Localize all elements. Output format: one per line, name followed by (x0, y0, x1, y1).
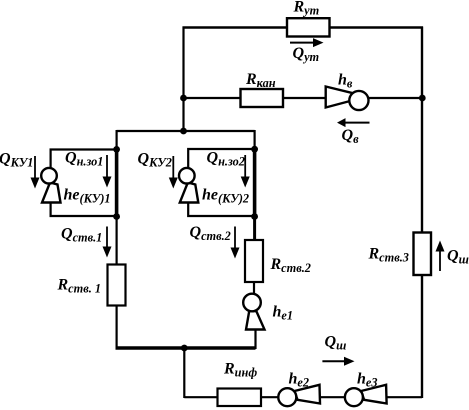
junction dot (183.5,131) (180, 128, 187, 135)
fan h_e3 circle (345, 388, 363, 406)
arrow Q_sh right (bottom) (322, 360, 346, 362)
arrow Q_nzo1 down (106, 155, 108, 178)
wire he1 base down to thick bus (254, 329, 256, 349)
svg-text:Rут: Rут (293, 0, 320, 18)
svg-text:hв: hв (338, 72, 353, 91)
KU box 1 thick right edge (115, 149, 119, 218)
wire box1 down to R_stv1 (115, 216, 117, 266)
svg-text:Rств.2: Rств.2 (270, 256, 311, 275)
junction dot right vertical y=98 (419, 95, 426, 102)
fan h_e1 cone (246, 310, 265, 330)
wire left stub vertical x=183.5 (182, 27, 184, 132)
resistor R_stv1 (108, 265, 126, 306)
svg-text:Qств.1: Qств.1 (61, 226, 102, 245)
fan h_v cone (326, 87, 352, 108)
svg-text:QКУ2: QКУ2 (138, 151, 172, 170)
resistor R_stv3 (414, 233, 432, 276)
fan h_v circle (349, 91, 368, 110)
fan he_KU2 circle (179, 168, 195, 184)
junction dot bus y=348 (181, 345, 188, 352)
svg-text:Qут: Qут (293, 45, 320, 64)
thick bus wire y=348 (116, 346, 256, 350)
junction dot box1 top-right (113, 146, 120, 153)
svg-text:Qш: Qш (447, 248, 469, 267)
svg-text:QКУ1: QКУ1 (0, 151, 33, 170)
fan he_KU1 cone (42, 183, 61, 203)
wire R_stv1 down to thick bus (115, 304, 117, 349)
wire right vertical (421, 27, 423, 399)
wire top horizontal (183, 26, 424, 28)
arrow Q_stv1 down (106, 227, 108, 249)
fan he_KU1 circle (41, 168, 57, 184)
svg-text:Qн.зо1: Qн.зо1 (65, 150, 103, 169)
fan h_e2 cone (295, 385, 321, 404)
fan he_KU2 cone (180, 183, 199, 203)
junction dot (183.5,98) (180, 95, 187, 102)
arrow Q_stv2 down (234, 227, 236, 250)
arrow Q_nzo2 down (244, 155, 246, 178)
svg-text:hе2: hе2 (289, 371, 310, 390)
svg-text:he(КУ)2: he(КУ)2 (202, 187, 249, 206)
fan h_e3 cone (361, 385, 387, 404)
resistor R_inf (218, 389, 262, 407)
junction dot box2 bottom-right (251, 213, 258, 220)
KU box 1 outline (51, 150, 117, 217)
wire bottom horizontal y=397 (184, 396, 422, 398)
KU box 2 outline (188, 149, 255, 216)
fan h_e2 circle (278, 388, 296, 406)
svg-text:Rств. 1: Rств. 1 (57, 277, 102, 296)
fan h_e1 circle (243, 294, 261, 312)
wire bottom-left drop x=184.3 (183, 348, 185, 398)
resistor R_ut (287, 18, 330, 36)
arrow Q_KU2 down (172, 156, 174, 179)
svg-text:Rкан: Rкан (245, 71, 276, 90)
svg-text:Rинф: Rинф (223, 361, 257, 380)
junction dot box1 bottom-right (113, 213, 120, 220)
wire box2 down to R_stv2 (253, 216, 256, 241)
svg-text:Qств.2: Qств.2 (190, 224, 231, 243)
svg-text:hе3: hе3 (357, 371, 378, 390)
arrow Q_sh up (right side) (439, 250, 441, 271)
svg-text:he(КУ)1: he(КУ)1 (64, 187, 111, 206)
arrow Q_ut right (290, 42, 315, 44)
KU box 2 thick right edge (253, 148, 257, 217)
svg-text:Qв: Qв (342, 127, 360, 146)
arrow Q_KU1 down (34, 156, 36, 179)
junction dot box2 top-right (251, 146, 258, 153)
wire drop to KU box 1 (115, 130, 117, 150)
wire drop to KU box 2 (254, 130, 256, 149)
svg-text:hе1: hе1 (273, 304, 294, 323)
wire row2 horizontal y=98 (184, 97, 423, 99)
svg-text:Qн.зо2: Qн.зо2 (207, 150, 245, 169)
wire y=131 horizontal between box drops (117, 130, 255, 132)
resistor R_stv2 (245, 240, 263, 282)
arrow Q_v left (345, 122, 370, 124)
resistor R_kan (241, 89, 284, 107)
wire R_stv2 to he1 circle (253, 281, 255, 296)
svg-text:Rств.3: Rств.3 (368, 246, 409, 265)
svg-text:Qш: Qш (325, 334, 347, 353)
